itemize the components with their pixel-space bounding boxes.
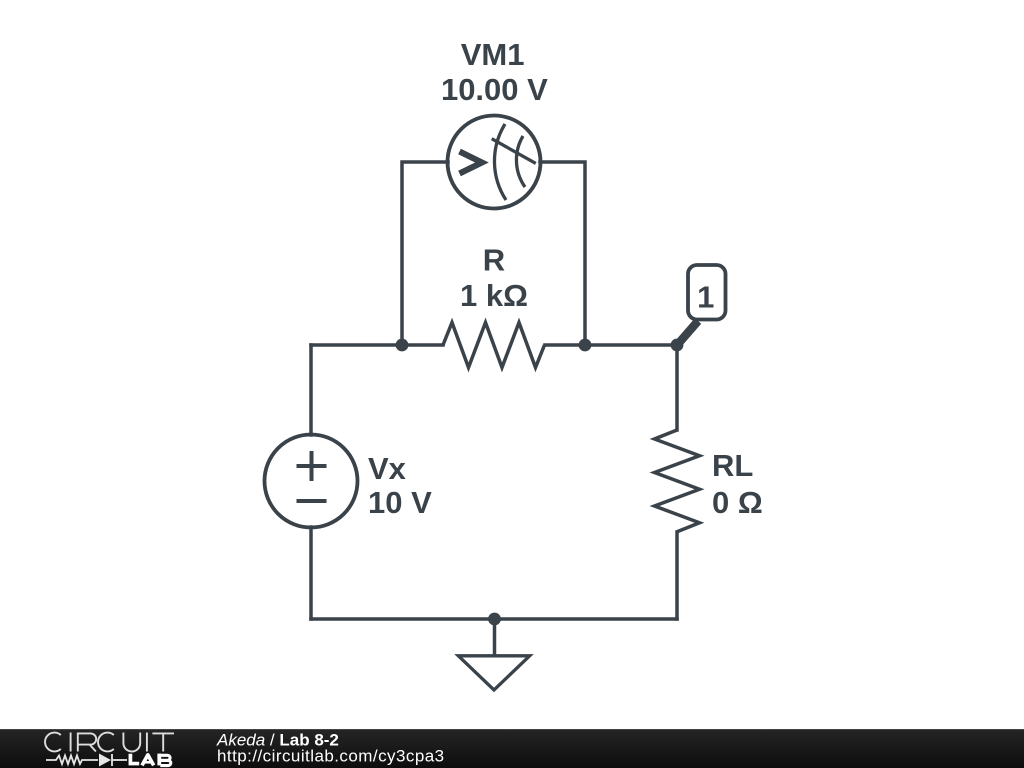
wire: left branch down to Vx bbox=[309, 345, 313, 435]
wire: Vx bottom to ground rail bbox=[309, 527, 313, 619]
CircuitLab logo LAB text bbox=[130, 754, 170, 766]
junction dot node 1 bbox=[671, 339, 684, 352]
wire: main horizontal right of R to node 1 bbox=[545, 343, 677, 347]
svg-text:R: R bbox=[483, 243, 505, 278]
wire: voltmeter left lead top-left corner bbox=[402, 162, 448, 345]
svg-text:1: 1 bbox=[697, 280, 714, 315]
svg-text:Vx: Vx bbox=[368, 451, 407, 486]
svg-text:http://circuitlab.com/cy3cpa3: http://circuitlab.com/cy3cpa3 bbox=[217, 747, 445, 766]
svg-text:VM1: VM1 bbox=[461, 37, 525, 72]
svg-text:RL: RL bbox=[712, 448, 753, 483]
svg-text:0 Ω: 0 Ω bbox=[712, 485, 763, 520]
CircuitLab logo resistor-diode line bbox=[46, 754, 127, 766]
wire: ground stub bbox=[493, 619, 497, 655]
junction dot node at R left bbox=[396, 339, 409, 352]
junction dot ground rail bbox=[488, 613, 501, 626]
svg-text:10.00 V: 10.00 V bbox=[441, 72, 548, 107]
svg-text:10 V: 10 V bbox=[368, 485, 432, 520]
node 1 flag bbox=[678, 265, 726, 344]
wire: node 1 down to RL bbox=[675, 345, 679, 430]
junction dot node at R right bbox=[579, 339, 592, 352]
svg-text:1 kΩ: 1 kΩ bbox=[460, 278, 528, 313]
resistor RL zigzag bbox=[655, 430, 700, 532]
footer bar bbox=[0, 729, 1024, 768]
wire: RL bottom lead bbox=[675, 532, 679, 619]
wire: main horizontal left of R bbox=[311, 343, 443, 347]
voltage source Vx bbox=[265, 435, 358, 528]
CircuitLab logo CIRCUIT lettering bbox=[45, 733, 174, 752]
ground bbox=[458, 656, 529, 690]
resistor R1 zigzag bbox=[443, 323, 545, 368]
wire: voltmeter right lead top-right corner bbox=[540, 162, 585, 345]
voltmeter VM1 bbox=[448, 116, 541, 209]
wire: bottom ground rail bbox=[311, 617, 677, 621]
